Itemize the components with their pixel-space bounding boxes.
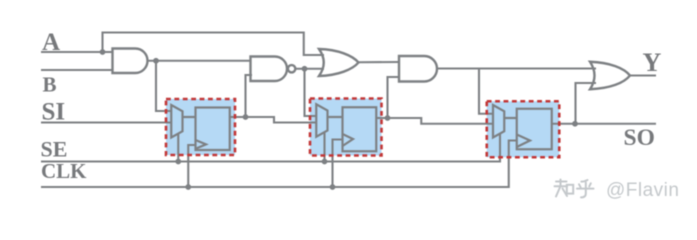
node SE to DFF2 xyxy=(322,159,328,165)
svg-text:SI: SI xyxy=(42,99,66,126)
svg-text:Y: Y xyxy=(643,48,662,77)
wire AND4 to DFF3 D input xyxy=(479,69,493,114)
svg-text:B: B xyxy=(43,73,57,97)
node DFF2 Q junction xyxy=(385,115,391,121)
node SE to DFF1 xyxy=(175,159,181,165)
wire SE input xyxy=(41,134,500,162)
D flip-flop register DFF1 xyxy=(196,108,230,151)
flip-flop DFF3 blue fill xyxy=(487,101,560,157)
mux M3 of DFF3 xyxy=(493,105,504,138)
wire NAND2 output xyxy=(295,68,324,70)
svg-text:CLK: CLK xyxy=(41,159,87,183)
wire DFF2 Q out xyxy=(376,117,387,119)
D flip-flop register DFF2 xyxy=(343,107,377,151)
wire DFF1 Q up to NAND2 xyxy=(246,75,253,117)
wire AND1 to DFF1 D input xyxy=(156,61,171,111)
wire B input xyxy=(41,69,113,71)
wire AND1 output xyxy=(148,60,251,62)
wire DFF2 Q to DFF3 SI xyxy=(388,118,494,124)
scan cell boundary DFF2 xyxy=(310,99,382,156)
wire DFF2 Q up to AND4 lower input xyxy=(388,77,400,118)
wire CLK up to DFF1 clock xyxy=(188,145,195,187)
wire DFF1 Q to NAND2 lower input xyxy=(230,116,246,118)
clock triangle DFF1 xyxy=(196,140,207,149)
svg-text:SO: SO xyxy=(624,125,655,151)
flip-flop DFF2 blue fill xyxy=(310,99,382,156)
wire NAND2 to DFF2 D input xyxy=(305,69,317,116)
node CLK to DFF2 xyxy=(330,184,336,190)
wire mux2 to dff2 xyxy=(328,116,343,118)
wire DFF3 Q out to SO xyxy=(552,123,656,125)
scan cell boundary DFF3 xyxy=(487,101,560,157)
wire DFF1 Q to DFF2 SI xyxy=(246,117,317,123)
node DFF1 Q junction xyxy=(243,114,249,120)
clock triangle DFF2 xyxy=(343,134,354,146)
wire DFF3 Q up to OR5 lower input xyxy=(576,83,597,124)
svg-text:SE: SE xyxy=(41,137,68,162)
wire OR5 output Y xyxy=(630,74,656,76)
NAND gate U2 xyxy=(251,57,288,82)
node DFF3 Q junction xyxy=(572,121,578,127)
flip-flop DFF1 blue fill xyxy=(166,99,235,155)
scan cell boundary DFF1 xyxy=(166,99,235,155)
wire mux1 to dff1 xyxy=(183,116,196,118)
wire mux3 to dff3 xyxy=(504,117,517,119)
mux M1 of DFF1 xyxy=(171,105,182,138)
wire CLK up to DFF2 clock xyxy=(333,140,343,188)
clock triangle DFF3 xyxy=(517,135,530,148)
OR gate U3 xyxy=(319,49,359,76)
node AND1 output junction xyxy=(153,58,159,64)
wire SI input xyxy=(41,121,171,123)
wire CLK input xyxy=(41,141,517,188)
wire SE up to DFF2 mux select xyxy=(323,133,325,162)
AND gate U1 xyxy=(113,49,148,74)
svg-text:@Flavin: @Flavin xyxy=(606,180,679,201)
wire OR3 output to AND4 xyxy=(359,61,400,63)
wire A input xyxy=(41,51,113,53)
node CLK to DFF1 xyxy=(185,184,191,190)
mux M2 of DFF2 xyxy=(316,104,327,137)
NAND gate U2 bubble xyxy=(288,65,295,72)
watermark zhihu logo glyphs xyxy=(555,180,594,198)
wire SE up to DFF1 mux select xyxy=(177,134,179,162)
AND gate U4 xyxy=(399,56,437,82)
OR gate U5 xyxy=(590,62,630,90)
D flip-flop register DFF3 xyxy=(517,109,552,150)
svg-text:A: A xyxy=(42,29,60,56)
wire AND4 output to OR5 xyxy=(437,67,596,69)
node A junction xyxy=(100,49,106,55)
wire A feedback top xyxy=(103,33,325,56)
node NAND2 output junction xyxy=(302,66,308,72)
